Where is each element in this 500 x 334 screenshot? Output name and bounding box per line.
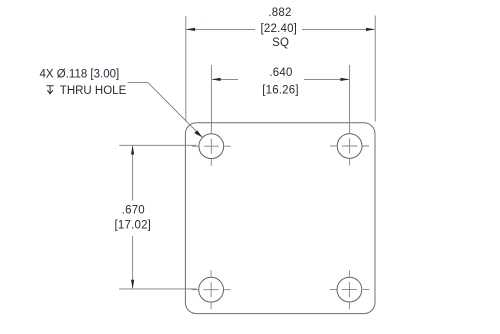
extension line .670 top [119, 144, 196, 146]
center mark H1 [192, 127, 231, 166]
arrowhead .882 left [186, 28, 195, 31]
svg-text:.882: .882 [268, 7, 291, 19]
dimension line .670 [132, 146, 134, 288]
center mark H4 [330, 270, 370, 309]
center mark H3 [192, 270, 231, 309]
arrowhead .882 right [366, 28, 375, 31]
depth symbol before THRU [47, 86, 54, 94]
svg-text:[17.02]: [17.02] [115, 220, 152, 232]
svg-text:[22.40]: [22.40] [261, 23, 298, 35]
svg-text:THRU HOLE: THRU HOLE [60, 85, 127, 97]
dimension line .882 [187, 28, 375, 30]
center mark H2 [330, 127, 369, 166]
svg-text:.640: .640 [269, 67, 292, 79]
leader line to hole H1 [128, 83, 203, 138]
extension line .882 right [374, 16, 376, 122]
svg-text:4X Ø.118 [3.00]: 4X Ø.118 [3.00] [40, 69, 120, 81]
hole H4 bottom-right [337, 277, 362, 302]
dimension line .640 [212, 78, 349, 80]
hole H3 bottom-left [199, 277, 224, 302]
extension line .640 right [349, 65, 351, 127]
arrowhead .640 right [340, 78, 349, 81]
extension line .882 left [185, 16, 187, 122]
extension line .670 bottom [119, 288, 196, 290]
arrowhead .670 bottom [131, 280, 134, 289]
svg-text:[16.26]: [16.26] [262, 85, 299, 97]
extension line .640 left [210, 65, 212, 127]
plate outline (rounded square) [185, 123, 375, 314]
hole H2 top-right [337, 134, 362, 159]
arrowhead .670 top [131, 145, 134, 154]
arrowhead leader [194, 130, 202, 137]
hole H1 top-left [199, 134, 224, 159]
arrowhead .640 left [211, 78, 220, 81]
svg-text:SQ: SQ [272, 37, 289, 49]
svg-text:.670: .670 [122, 205, 145, 217]
